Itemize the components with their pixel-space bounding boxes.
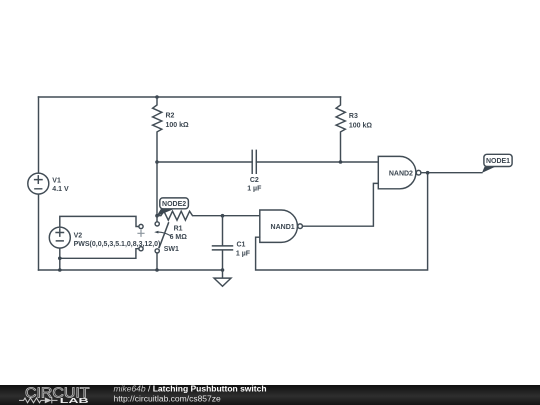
svg-text:4.1 V: 4.1 V: [52, 186, 69, 193]
svg-text:PWS(0,0,5,3,5.1,0,8,3,12,0): PWS(0,0,5,3,5.1,0,8,3,12,0): [74, 241, 161, 248]
svg-text:100 kΩ: 100 kΩ: [166, 122, 190, 129]
wire feedback NAND2 out to NAND1 input: [256, 173, 428, 270]
wire V2 bottom loop: [60, 249, 139, 259]
svg-text:SW1: SW1: [164, 246, 179, 253]
svg-text:1 µF: 1 µF: [247, 186, 262, 193]
svg-text:NODE2: NODE2: [162, 201, 186, 208]
resistor R3: [336, 97, 345, 162]
switch SW1: [154, 216, 171, 270]
polarity plus mark: [138, 230, 144, 236]
capacitor C1: [213, 216, 233, 270]
node junction NAND2 output: [426, 171, 430, 175]
svg-text:1 µF: 1 µF: [236, 250, 251, 257]
node junction R2 / C2 row: [155, 160, 159, 164]
svg-text:http://circuitlab.com/cs857ze: http://circuitlab.com/cs857ze: [114, 393, 222, 403]
wire R1 to NAND1: [223, 215, 260, 217]
svg-text:V2: V2: [74, 232, 83, 239]
label R1 value: [170, 225, 188, 241]
node junction V2 / ground rail: [58, 268, 62, 272]
svg-text:NODE1: NODE1: [486, 158, 510, 165]
resistor R1: [157, 211, 223, 220]
svg-text:R3: R3: [349, 113, 358, 120]
svg-text:R2: R2: [166, 112, 175, 119]
flag NODE2: [156, 198, 188, 216]
label V1 value: [52, 177, 69, 193]
wire C2 row right: [256, 161, 378, 163]
label C1 value: [236, 242, 251, 258]
label V2 value: [74, 232, 161, 248]
wire top rail: [39, 96, 341, 98]
wire V2 top loop: [60, 216, 139, 226]
svg-text:V1: V1: [52, 177, 61, 184]
svg-text:mike64b / Latching Pushbutton: mike64b / Latching Pushbutton switch: [114, 384, 267, 394]
label R3 value: [349, 113, 373, 129]
svg-text:R1: R1: [174, 225, 183, 232]
svg-text:NAND1: NAND1: [271, 224, 295, 231]
node junction SW1 / ground rail: [155, 268, 159, 272]
wire ground rail: [39, 269, 223, 271]
wire NAND1 output to NAND2 input: [303, 183, 379, 226]
terminal circle top: [139, 224, 143, 228]
wire NAND2 output: [421, 172, 482, 174]
wire C2 row left: [157, 161, 252, 163]
node junction top rail / R2: [155, 95, 159, 99]
node junction R1 SW1 NODE2: [155, 214, 159, 218]
node junction V2 / loop: [58, 257, 62, 261]
nand gate NAND2: [378, 156, 421, 188]
ground: [214, 270, 231, 286]
label C2 value: [247, 177, 262, 192]
label R2 value: [166, 112, 190, 129]
terminal circle bottom: [139, 247, 143, 251]
flag NODE1: [482, 154, 512, 173]
resistor R2: [153, 97, 162, 162]
svg-text:6 MΩ: 6 MΩ: [170, 234, 188, 241]
svg-text:NAND2: NAND2: [389, 170, 413, 177]
svg-text:100 kΩ: 100 kΩ: [349, 123, 373, 130]
wire left column (V1 branch): [38, 97, 40, 270]
wire R2 column lower: [156, 162, 158, 216]
svg-text:LAB: LAB: [60, 397, 89, 405]
footer bar: [0, 384, 540, 405]
nand gate NAND1: [260, 210, 303, 242]
voltage source V1: [28, 173, 49, 194]
svg-text:C2: C2: [250, 177, 259, 184]
svg-text:C1: C1: [237, 242, 246, 249]
wire V2 lead to rail: [59, 248, 61, 270]
node junction R3 / C2 row: [339, 160, 343, 164]
node junction R1 / C1: [221, 214, 225, 218]
capacitor C2: [252, 150, 256, 173]
logo wire resistor diode: [19, 397, 58, 403]
node junction C1 / ground rail: [221, 268, 225, 272]
voltage source V2: [49, 227, 70, 248]
